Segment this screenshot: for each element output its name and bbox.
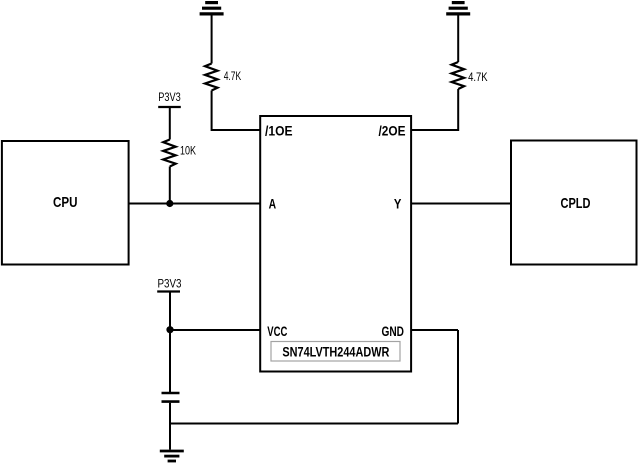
wire: right resistor bottom to /2OE pin — [411, 89, 458, 130]
svg-text:4.7K: 4.7K — [224, 71, 242, 83]
wire: VCC node to VCC pin — [170, 329, 260, 331]
resistor 10K pull-up — [163, 140, 176, 167]
svg-text:VCC: VCC — [267, 323, 287, 339]
capacitor (decoupling) — [162, 393, 180, 402]
svg-text:4.7K: 4.7K — [468, 72, 488, 84]
svg-text:/2OE: /2OE — [379, 123, 406, 139]
op IC U1 SN74LVTH244ADWR buffer body — [260, 116, 411, 372]
svg-text:P3V3: P3V3 — [158, 279, 182, 291]
part number label SN74LVTH244ADWR — [271, 342, 400, 362]
svg-text:10K: 10K — [180, 146, 196, 158]
svg-text:CPU: CPU — [53, 194, 78, 211]
wire: CPU to pin A — [129, 203, 261, 205]
wire: GND pin to right vertical return — [411, 329, 458, 331]
svg-text:/1OE: /1OE — [265, 123, 293, 139]
wire: right vertical return — [457, 330, 459, 424]
resistor 4.7K (left pull-up) — [205, 64, 218, 91]
wire: P3V3 tick to 10K resistor — [169, 107, 171, 140]
svg-text:GND: GND — [382, 323, 405, 339]
wire: left resistor bottom to /1OE pin — [212, 91, 261, 131]
wire: left ground to resistor top — [211, 16, 213, 64]
wire: right ground to resistor top — [457, 16, 459, 63]
junction node VCC (dot) — [166, 326, 173, 333]
power tick P3V3 (top) — [158, 106, 181, 108]
wire: P3V3 tick down through VCC node to capacitor — [169, 292, 171, 393]
wire: 10K bottom to node A — [169, 167, 171, 204]
inverted ground symbol (left, top of 4.7K pull-up) — [200, 3, 224, 14]
resistor 4.7K (right pull-up) — [452, 62, 465, 89]
svg-text:P3V3: P3V3 — [158, 92, 181, 104]
ground symbol (bottom) — [160, 451, 184, 461]
wire: pin Y to CPLD — [411, 203, 511, 205]
svg-text:A: A — [269, 196, 277, 212]
CPU block — [2, 141, 129, 265]
svg-text:Y: Y — [394, 196, 402, 212]
svg-text:SN74LVTH244ADWR: SN74LVTH244ADWR — [282, 344, 389, 359]
CPLD block — [511, 141, 637, 265]
svg-text:CPLD: CPLD — [561, 195, 591, 212]
wire: bottom return to ground stem — [170, 423, 458, 425]
inverted ground symbol (right, top of 4.7K pull-up) — [446, 3, 470, 14]
wire: capacitor to ground — [169, 403, 171, 450]
junction node A (dot) — [166, 200, 173, 207]
power tick P3V3 (lower) — [157, 290, 180, 292]
